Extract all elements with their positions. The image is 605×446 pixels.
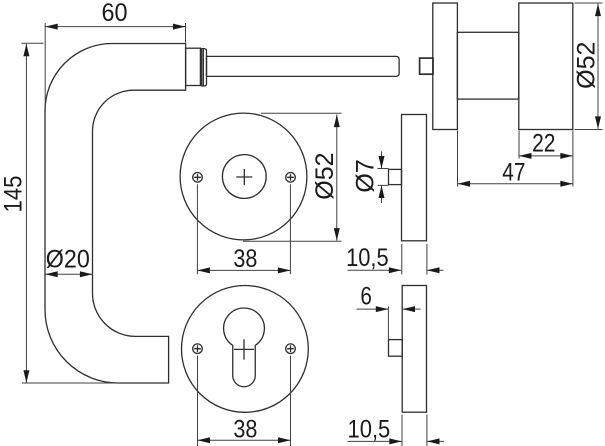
euro profile cylinder keyhole [224,308,265,387]
arrowheads dim D7 [379,156,385,169]
dim 10,5 bottom lines [348,440,445,442]
dim 10,5 middle lines [348,269,444,271]
top rose circle (front view) [180,113,307,240]
top rose hub circle [222,155,266,199]
svg-text:38: 38 [233,245,257,273]
spindle square stub [420,58,433,74]
arrowheads dim 10,5 bottom [389,438,402,444]
bottom key rose (side view) [402,286,426,413]
screw bottom-right [286,344,296,354]
arrowheads dim 6 [376,306,389,312]
handle neck [186,48,201,85]
svg-text:47: 47 [502,159,525,187]
knob rose plate (side view) [433,3,458,130]
svg-text:38: 38 [233,415,257,443]
bottom rose centre cross [234,339,254,359]
dim D7 ticks [378,169,389,186]
arrowheads dim 60 [45,24,58,30]
handle collar [202,49,207,86]
dim D52 rose line [336,115,338,241]
svg-text:10,5: 10,5 [346,244,389,272]
dim D7 lines [381,152,383,204]
dim 38 bottom ext [198,356,291,446]
dim 10,5 middle ext [402,244,427,275]
arrowheads dim D52 rose [334,115,340,128]
dim D52 rose ext [243,113,342,241]
bottom key rose circle (front view) [182,286,309,413]
dim 60 ext left [44,23,46,111]
knob neck (side view) [457,32,518,99]
dim 145 ext bottom [22,382,119,384]
dim 38 top ext [197,184,290,274]
arrowheads dim 145 [23,44,29,57]
arrowheads dim 38 top [197,267,210,273]
svg-text:22: 22 [532,130,555,158]
middle rose screw (side view) [389,169,402,184]
arrowheads dim 10,5 middle [389,267,402,273]
dim 6 lines [357,308,421,310]
dim 22 line [519,155,573,157]
dim 10,5 bottom ext [402,415,427,446]
dim 145 line [25,44,27,383]
dim 38 bottom line [198,439,291,441]
svg-text:Ø52: Ø52 [311,152,339,199]
top rose centre cross [236,169,252,185]
svg-text:145: 145 [0,176,28,213]
arrowheads dim 22 [519,153,532,159]
svg-text:Ø52: Ø52 [573,42,601,89]
dim D52 knob line [597,4,599,129]
arrowheads dim 47 [458,181,471,187]
svg-text:10,5: 10,5 [348,416,391,444]
dim D52 knob ext [575,3,603,130]
dim 47 line [458,183,573,185]
middle rose (side view) [402,115,427,241]
dim 60 line [45,26,185,28]
svg-text:60: 60 [102,0,128,27]
spindle shaft [207,56,400,76]
dim 47 ext left [457,131,459,187]
screw bottom-left [193,344,203,354]
screw top-left [193,173,203,183]
knob body (side view) [519,3,573,130]
screw top-right [286,173,296,183]
dim 38 top line [197,269,290,271]
dim 22 ext left [518,131,520,159]
lever handle outline [45,44,186,384]
svg-text:6: 6 [360,283,372,311]
dim 145 ext top [22,42,44,44]
arrowheads dim D52 knob [595,4,601,17]
dim D20 line [45,273,92,275]
dim 6 ext [387,307,389,340]
dim 60 ext right [185,23,187,43]
bottom key rose screw (side view) [389,340,403,357]
arrowheads dim D20 [45,271,58,277]
dim 22 47 ext right [572,131,574,187]
arrowheads dim 38 bottom [198,437,211,443]
svg-text:Ø20: Ø20 [46,246,90,274]
svg-text:Ø7: Ø7 [352,159,380,192]
